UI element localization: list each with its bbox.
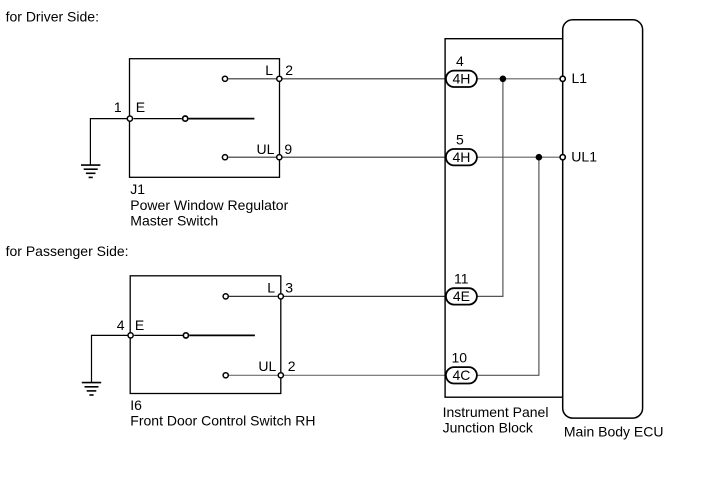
svg-text:4H: 4H xyxy=(452,71,470,87)
J1 switch arm xyxy=(189,118,255,120)
svg-text:Main Body ECU: Main Body ECU xyxy=(564,424,664,440)
J1 switch pivot circle xyxy=(183,116,188,121)
wire: 4H pin5 to ECU UL1 xyxy=(477,156,563,158)
J1 UL-row contact circle xyxy=(222,155,227,160)
svg-text:9: 9 xyxy=(284,141,292,157)
svg-text:Instrument Panel: Instrument Panel xyxy=(443,404,549,420)
wire: I6 UL contact to terminal 2 xyxy=(229,374,277,376)
wire: I6 terminal 2 (UL) to junction block 4C xyxy=(284,374,446,376)
svg-text:2: 2 xyxy=(285,62,293,78)
ground symbol (driver side) xyxy=(81,165,100,177)
svg-text:4H: 4H xyxy=(452,149,470,165)
J1 terminal 1 circle (E) xyxy=(127,116,132,121)
svg-text:1: 1 xyxy=(114,99,122,115)
junction block outline (Instrument Panel Junction Block) xyxy=(445,39,563,398)
ECU terminal circle L1 xyxy=(560,76,565,81)
svg-text:4C: 4C xyxy=(452,367,470,383)
switch I6 box (Front Door Control Switch RH) xyxy=(130,276,281,394)
svg-text:for Driver Side:: for Driver Side: xyxy=(6,9,99,25)
svg-text:4: 4 xyxy=(117,317,125,333)
connector oval 4H pin 4 xyxy=(446,71,477,87)
I6 switch arm xyxy=(189,334,255,336)
svg-text:3: 3 xyxy=(285,280,293,296)
junction dot node UL1 xyxy=(536,154,543,161)
wire: J1 L contact to terminal 2 xyxy=(228,78,276,80)
connector oval 4E pin 11 xyxy=(446,288,477,304)
wire: vertical branch L1 node to 4E xyxy=(477,79,503,297)
J1 terminal 2 circle (L) xyxy=(277,76,282,81)
J1 L-row contact circle xyxy=(222,76,227,81)
svg-text:E: E xyxy=(136,99,145,115)
ground symbol (passenger side) xyxy=(82,383,101,395)
wire: I6 E to ground xyxy=(92,335,128,382)
wire: J1 terminal 9 (UL) to junction block 4H pin5 xyxy=(283,156,447,158)
wire: J1 terminal 2 (L) to junction block 4H pin4 xyxy=(283,78,447,80)
wire: J1 E to ground xyxy=(90,119,127,166)
svg-text:4E: 4E xyxy=(453,288,470,304)
svg-text:Front Door Control Switch RH: Front Door Control Switch RH xyxy=(130,412,315,428)
wire: I6 L contact to terminal 3 xyxy=(229,295,277,297)
I6 terminal 3 circle (L) xyxy=(278,294,283,299)
wire: J1 E terminal to pivot xyxy=(134,118,182,120)
switch J1 box (Power Window Regulator Master Switch) xyxy=(130,59,280,178)
wire: I6 terminal 3 (L) to junction block 4E xyxy=(284,295,446,297)
svg-text:L: L xyxy=(267,280,275,296)
wire: I6 E terminal to pivot xyxy=(134,334,182,336)
wire: 4H pin4 to ECU L1 xyxy=(477,78,563,80)
connector oval 4H pin 5 xyxy=(446,149,477,165)
I6 terminal 2 circle (UL) xyxy=(278,373,283,378)
ECU terminal circle UL1 xyxy=(560,155,565,160)
svg-text:I6: I6 xyxy=(130,397,142,413)
svg-text:Power Window Regulator: Power Window Regulator xyxy=(130,197,288,213)
connector oval 4C pin 10 xyxy=(446,367,477,383)
svg-text:11: 11 xyxy=(454,271,469,287)
svg-text:for Passenger Side:: for Passenger Side: xyxy=(6,243,129,259)
svg-text:L: L xyxy=(265,62,273,78)
svg-text:2: 2 xyxy=(288,358,296,374)
junction dot node L1 xyxy=(500,76,507,83)
svg-text:10: 10 xyxy=(452,349,468,365)
svg-text:UL1: UL1 xyxy=(571,148,597,164)
svg-text:L1: L1 xyxy=(572,70,588,86)
wire: vertical branch UL1 node to 4C xyxy=(477,157,539,375)
svg-text:Junction Block: Junction Block xyxy=(443,419,534,435)
svg-text:J1: J1 xyxy=(130,181,145,197)
J1 terminal 9 circle (UL) xyxy=(277,155,282,160)
I6 L-row contact circle xyxy=(223,294,228,299)
svg-text:5: 5 xyxy=(456,131,464,147)
svg-text:UL: UL xyxy=(258,358,276,374)
Main Body ECU box xyxy=(563,20,643,418)
I6 UL-row contact circle xyxy=(223,373,228,378)
svg-text:UL: UL xyxy=(257,141,275,157)
wire: J1 UL contact to terminal 9 xyxy=(228,156,276,158)
svg-text:Master Switch: Master Switch xyxy=(130,213,218,229)
svg-text:E: E xyxy=(135,317,144,333)
I6 terminal 4 circle (E) xyxy=(128,333,133,338)
I6 switch pivot circle xyxy=(183,333,188,338)
svg-text:4: 4 xyxy=(456,53,464,69)
